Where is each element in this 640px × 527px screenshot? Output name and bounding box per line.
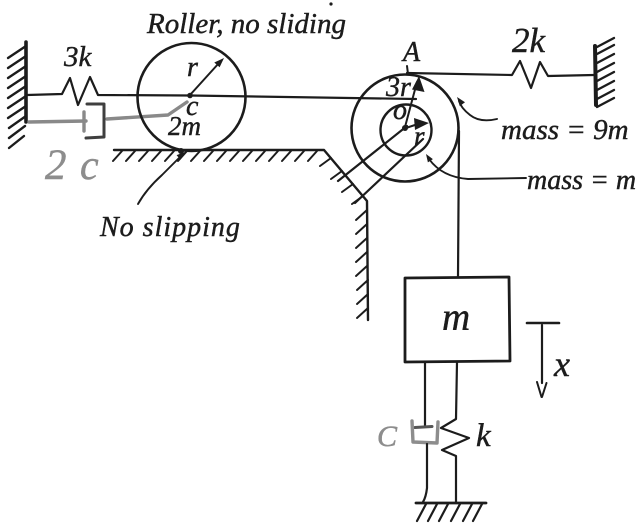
svg-text:mass = m: mass = m (527, 165, 636, 196)
svg-text:2k: 2k (512, 21, 547, 60)
svg-text:No slipping: No slipping (99, 212, 241, 243)
svg-text:A: A (401, 37, 421, 68)
svg-text:k: k (476, 418, 492, 454)
svg-text:mass = 9m: mass = 9m (501, 114, 629, 146)
svg-text:C: C (377, 420, 398, 453)
svg-text:o: o (393, 95, 407, 126)
svg-text:2m: 2m (168, 111, 201, 141)
svg-text:r: r (414, 121, 425, 151)
svg-text:3k: 3k (63, 41, 93, 73)
svg-text:r: r (187, 52, 198, 83)
svg-text:Roller, no sliding: Roller, no sliding (146, 8, 346, 40)
svg-text:c: c (80, 143, 99, 189)
svg-text:m: m (442, 296, 470, 339)
svg-text:x: x (553, 344, 570, 384)
svg-text:2: 2 (45, 142, 67, 189)
